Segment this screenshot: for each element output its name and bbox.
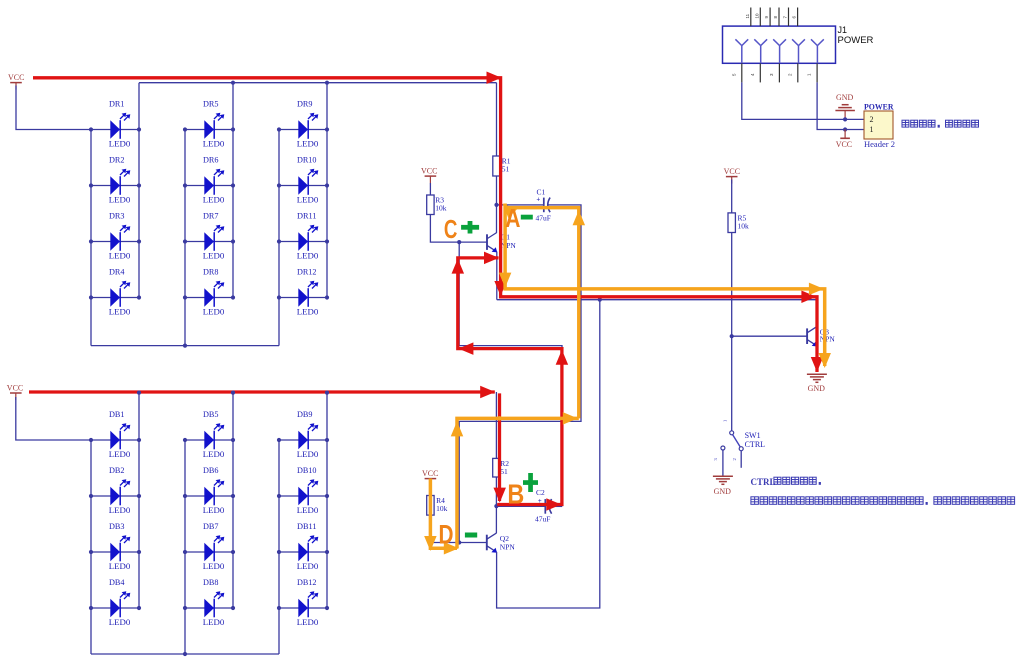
junction dot — [137, 183, 141, 187]
junction dot — [843, 117, 847, 121]
svg-text:NPN: NPN — [500, 543, 516, 552]
capacitor C2 — [535, 488, 552, 524]
junction dot — [277, 438, 281, 442]
junction dot Q2 base — [457, 540, 461, 544]
svg-text:Header 2: Header 2 — [864, 139, 895, 149]
wire DB bottom bus — [91, 653, 279, 655]
LED DB3 — [91, 522, 139, 571]
svg-text:DR4: DR4 — [109, 268, 125, 277]
wire R4 to Q2 base — [430, 515, 486, 542]
junction dot — [183, 606, 187, 610]
wire C1 right to Q2 base net — [459, 205, 581, 543]
svg-text:LED0: LED0 — [109, 139, 131, 148]
wire DB col2 left bus — [184, 440, 186, 654]
J1 antenna pin 1 — [735, 39, 748, 63]
junction dot — [183, 344, 187, 348]
svg-text:DB11: DB11 — [297, 522, 317, 531]
label C plus (green) — [461, 221, 479, 234]
wire VCC to DB array — [16, 397, 91, 440]
junction dot — [137, 550, 141, 554]
LED DR7 — [185, 212, 233, 261]
LED DR9 — [279, 100, 327, 149]
svg-text:DB2: DB2 — [109, 466, 125, 475]
svg-text:1: 1 — [870, 125, 874, 134]
wire DB col1 left bus — [90, 440, 92, 654]
LED DR8 — [185, 268, 233, 317]
junction dot — [325, 81, 329, 85]
LED DR10 — [279, 156, 327, 205]
power VCC (R4) — [422, 469, 438, 486]
ground (header) inverted — [835, 93, 855, 119]
junction dot — [277, 494, 281, 498]
wire DB col1 right bus — [138, 392, 140, 608]
J1 antenna pin 5 — [811, 39, 824, 63]
node A junction dot — [494, 203, 498, 207]
junction dot — [231, 81, 235, 85]
svg-text:DB9: DB9 — [297, 410, 313, 419]
svg-text:POWER: POWER — [864, 101, 894, 111]
svg-text:VCC: VCC — [724, 167, 740, 176]
junction dot — [325, 606, 329, 610]
svg-text:51: 51 — [500, 467, 508, 476]
junction dot — [277, 239, 281, 243]
svg-text:DB6: DB6 — [203, 466, 219, 475]
wire J1 pin5 to header pin2 — [742, 82, 864, 119]
wire DR col3 right bus — [326, 83, 328, 298]
junction dot — [89, 550, 93, 554]
svg-text:11: 11 — [745, 13, 750, 18]
node B junction dot — [494, 504, 498, 508]
J1 top pin 6 — [792, 8, 798, 27]
svg-text:LED0: LED0 — [203, 307, 225, 316]
svg-text:DR11: DR11 — [297, 212, 317, 221]
junction dot — [277, 183, 281, 187]
svg-text:SW1: SW1 — [745, 431, 761, 440]
junction dot — [183, 239, 187, 243]
red current path: node B loop to Q1 emitter — [452, 252, 569, 511]
svg-text:POWER: POWER — [838, 35, 874, 46]
svg-text:DB4: DB4 — [109, 578, 125, 587]
J1 top pin 10 — [754, 8, 760, 27]
junction dot — [137, 606, 141, 610]
LED DR1 — [91, 100, 139, 149]
junction dot — [843, 127, 847, 131]
svg-text:VCC: VCC — [7, 383, 23, 392]
junction dot — [325, 239, 329, 243]
LED DB1 — [91, 410, 139, 459]
power VCC (R5) — [724, 167, 740, 184]
power VCC (top array) — [8, 73, 24, 90]
transistor Q2 — [487, 533, 516, 553]
red current path: VCC top bus — [33, 72, 823, 372]
J1 bottom pin 2 — [787, 63, 798, 82]
J1 bottom pin 3 — [769, 63, 780, 82]
LED DB8 — [185, 578, 233, 627]
svg-text:10k: 10k — [738, 222, 750, 231]
LED DR3 — [91, 212, 139, 261]
junction dot — [325, 183, 329, 187]
wire top cathode bus — [139, 82, 497, 84]
svg-text:DB1: DB1 — [109, 410, 125, 419]
LED DB7 — [185, 522, 233, 571]
wire emitter bus to Q3 — [497, 299, 817, 301]
svg-text:A: A — [505, 205, 520, 233]
junction dot — [231, 550, 235, 554]
wire R1 bottom to node A — [496, 176, 498, 233]
J1 antenna pin 4 — [792, 39, 805, 63]
junction dot — [325, 494, 329, 498]
junction dot Q1 base — [457, 240, 461, 244]
wire SW1 pin2 stub — [740, 451, 742, 468]
LED DR4 — [91, 268, 139, 317]
junction dot Q3 base — [730, 334, 734, 338]
LED DR11 — [279, 212, 327, 261]
wire Q3 base — [732, 335, 807, 337]
svg-text:LED0: LED0 — [203, 450, 225, 459]
orange current path: node A to ground — [499, 204, 831, 369]
transistor Q3 — [807, 327, 835, 347]
J1 bottom pin 5 — [731, 63, 742, 82]
wire Q2 emitter loop — [497, 300, 600, 608]
resistor R4 — [427, 496, 448, 516]
svg-text:LED0: LED0 — [203, 195, 225, 204]
svg-text:47uF: 47uF — [536, 214, 551, 223]
wire DR col2 left bus — [184, 130, 186, 346]
svg-text:LED0: LED0 — [203, 618, 225, 627]
svg-text:DR7: DR7 — [203, 212, 219, 221]
svg-text:DR9: DR9 — [297, 100, 313, 109]
svg-text:VCC: VCC — [422, 469, 438, 478]
junction dot — [89, 295, 93, 299]
wire Q1 base net down to C2 — [459, 242, 562, 506]
svg-text:LED0: LED0 — [297, 450, 319, 459]
wire DR col3 left bus — [278, 130, 280, 346]
svg-text:NPN: NPN — [501, 241, 517, 250]
wire DB col2 right bus — [232, 392, 234, 608]
svg-text:D: D — [439, 520, 454, 550]
resistor R2 — [493, 458, 510, 477]
junction dot — [277, 550, 281, 554]
LED DB10 — [279, 466, 327, 515]
wire Q3 emitter down — [816, 346, 818, 371]
svg-text:LED0: LED0 — [109, 307, 131, 316]
junction dot — [89, 606, 93, 610]
ground (Q3 emitter) — [807, 374, 827, 393]
wire VCC to R4 — [429, 486, 431, 496]
LED DR12 — [279, 268, 327, 317]
LED DB6 — [185, 466, 233, 515]
svg-text:LED0: LED0 — [297, 618, 319, 627]
connector J1 body — [723, 25, 874, 63]
orange current path: D from VCC through R4 — [424, 412, 579, 554]
LED DB5 — [185, 410, 233, 459]
svg-text:LED0: LED0 — [109, 251, 131, 260]
junction dot — [325, 438, 329, 442]
svg-text:LED0: LED0 — [297, 307, 319, 316]
label A minus (green) — [521, 215, 533, 220]
wire DR col2 right bus — [232, 83, 234, 298]
svg-text:LED0: LED0 — [109, 195, 131, 204]
header 2 power connector — [864, 101, 895, 149]
junction dot — [137, 239, 141, 243]
junction dot — [231, 606, 235, 610]
resistor R1 — [493, 156, 511, 176]
svg-text:C1: C1 — [537, 188, 546, 197]
junction dot — [231, 127, 235, 131]
svg-text:DR3: DR3 — [109, 212, 125, 221]
svg-text:CTRL: CTRL — [751, 477, 776, 487]
svg-text:LED0: LED0 — [203, 251, 225, 260]
svg-text:LED0: LED0 — [109, 506, 131, 515]
transistor Q1 — [487, 233, 516, 253]
junction dot — [89, 494, 93, 498]
svg-text:DB8: DB8 — [203, 578, 219, 587]
J1 top pin 11 — [745, 8, 751, 27]
junction dot on bus — [137, 391, 141, 395]
junction dot — [277, 606, 281, 610]
J1 antenna pin 3 — [773, 39, 786, 63]
wire VCC to DR array — [16, 86, 91, 130]
LED DB2 — [91, 466, 139, 515]
svg-text:2: 2 — [732, 458, 737, 460]
junction dot — [137, 295, 141, 299]
LED DB9 — [279, 410, 327, 459]
junction dot — [231, 295, 235, 299]
svg-text:LED0: LED0 — [109, 450, 131, 459]
wire J1 pin1 to header pin1 — [817, 82, 864, 129]
junction dot emitter bus — [598, 298, 602, 302]
svg-text:LED0: LED0 — [203, 562, 225, 571]
svg-text:LED0: LED0 — [297, 195, 319, 204]
wire SW1 pin3 to ground — [722, 450, 724, 476]
wire R5 down to SW1 — [731, 233, 733, 431]
svg-text:VCC: VCC — [8, 73, 24, 82]
svg-text:J1: J1 — [838, 25, 848, 35]
junction dot — [277, 127, 281, 131]
svg-text:LED0: LED0 — [109, 618, 131, 627]
svg-text:DR6: DR6 — [203, 156, 219, 165]
svg-text:DB3: DB3 — [109, 522, 125, 531]
junction dot — [137, 494, 141, 498]
wire DR col1 left bus — [90, 130, 92, 346]
svg-text:GND: GND — [714, 487, 732, 496]
svg-text:DR2: DR2 — [109, 156, 125, 165]
J1 top pin 9 — [764, 8, 770, 27]
wire R2 to node B — [495, 477, 497, 533]
junction dot on bus — [231, 391, 235, 395]
svg-text:2: 2 — [870, 115, 874, 124]
svg-text:LED0: LED0 — [297, 139, 319, 148]
svg-text:LED0: LED0 — [203, 139, 225, 148]
resistor R5 — [728, 213, 749, 233]
annotation: power plug note (Chinese) — [902, 120, 979, 127]
svg-text:+: + — [536, 196, 540, 203]
LED DB4 — [91, 578, 139, 627]
wire C2 right — [549, 505, 562, 507]
svg-text:VCC: VCC — [836, 140, 852, 149]
wire DR col1 right bus — [138, 83, 140, 298]
junction dot — [231, 438, 235, 442]
J1 bottom pin 4 — [750, 63, 761, 82]
svg-text:10k: 10k — [435, 204, 447, 213]
junction dot — [183, 652, 187, 656]
annotation: CTRL note line 2 (Chinese) — [751, 497, 1015, 505]
svg-text:GND: GND — [836, 93, 854, 102]
J1 top pin 7 — [783, 8, 789, 27]
svg-text:DR1: DR1 — [109, 100, 125, 109]
svg-text:GND: GND — [808, 384, 826, 393]
power VCC (bottom array) — [7, 383, 23, 400]
svg-text:DB10: DB10 — [297, 466, 317, 475]
junction dot — [231, 239, 235, 243]
LED DR6 — [185, 156, 233, 205]
junction dot — [183, 295, 187, 299]
switch SW1 — [713, 420, 765, 461]
ground (SW1) — [713, 476, 733, 496]
svg-text:47uF: 47uF — [535, 515, 550, 524]
capacitor C1 — [536, 188, 551, 223]
svg-text:51: 51 — [502, 165, 510, 174]
junction dot — [231, 183, 235, 187]
LED DB12 — [279, 578, 327, 627]
junction dot — [89, 127, 93, 131]
svg-text:DB7: DB7 — [203, 522, 219, 531]
label B plus (green) — [523, 473, 538, 492]
svg-text:C: C — [444, 216, 458, 244]
wire Q3 collector up — [816, 300, 818, 327]
junction dot — [137, 438, 141, 442]
svg-text:VCC: VCC — [421, 167, 437, 176]
junction dot — [325, 127, 329, 131]
svg-text:DB12: DB12 — [297, 578, 317, 587]
J1 bottom pin 1 — [807, 63, 818, 82]
svg-text:LED0: LED0 — [203, 506, 225, 515]
orange current path: C1 bypass — [505, 207, 585, 419]
LED DR5 — [185, 100, 233, 149]
svg-text:DR12: DR12 — [297, 268, 317, 277]
junction dot — [183, 438, 187, 442]
wire R1 top from cathode bus — [496, 83, 498, 156]
svg-text:LED0: LED0 — [297, 506, 319, 515]
svg-text:NPN: NPN — [820, 335, 836, 344]
svg-text:DR5: DR5 — [203, 100, 219, 109]
junction dot on bus — [325, 391, 329, 395]
J1 antenna pin 2 — [754, 39, 767, 63]
label D minus (green) — [465, 533, 477, 538]
junction dot — [183, 494, 187, 498]
capacitor C1 wire — [497, 204, 544, 206]
capacitor C2 wire — [496, 505, 545, 507]
J1 top pin 8 — [773, 8, 779, 27]
junction dot — [325, 295, 329, 299]
junction dot — [89, 239, 93, 243]
svg-text:CTRL: CTRL — [745, 440, 766, 449]
resistor R3 — [427, 195, 447, 215]
junction dot — [183, 127, 187, 131]
svg-text:DR8: DR8 — [203, 268, 219, 277]
svg-text:LED0: LED0 — [297, 562, 319, 571]
junction dot — [325, 550, 329, 554]
svg-text:B: B — [507, 478, 524, 509]
junction dot — [89, 183, 93, 187]
red current path: VCC bottom bus — [29, 386, 495, 399]
wire Q1 emitter down — [496, 252, 498, 300]
wire red bus to R2 — [495, 392, 497, 458]
power VCC (header) — [836, 130, 852, 149]
wire VCC to R5 — [731, 180, 733, 213]
LED DB11 — [279, 522, 327, 571]
annotation: CTRL note line 1 (Chinese) — [751, 477, 821, 487]
svg-text:LED0: LED0 — [109, 562, 131, 571]
LED DR2 — [91, 156, 139, 205]
wire DB col3 left bus — [278, 440, 280, 654]
svg-text:1: 1 — [722, 420, 727, 422]
svg-text:DB5: DB5 — [203, 410, 219, 419]
svg-text:10k: 10k — [436, 504, 448, 513]
wire VCC to R3 — [429, 183, 431, 195]
junction dot — [183, 550, 187, 554]
orange junction dot — [497, 416, 502, 421]
svg-text:10: 10 — [754, 13, 759, 19]
svg-text:C2: C2 — [536, 488, 545, 497]
wire DB col3 right bus — [326, 392, 328, 608]
junction dot — [183, 183, 187, 187]
junction dot — [89, 438, 93, 442]
junction dot — [231, 494, 235, 498]
svg-text:LED0: LED0 — [297, 251, 319, 260]
svg-text:DR10: DR10 — [297, 156, 317, 165]
junction dot — [277, 295, 281, 299]
red current path: into node B — [493, 393, 506, 502]
wire R3 to Q1 base — [430, 215, 487, 243]
power VCC (R3) — [421, 167, 437, 184]
wire DR bottom bus — [91, 345, 279, 347]
junction dot — [137, 127, 141, 131]
